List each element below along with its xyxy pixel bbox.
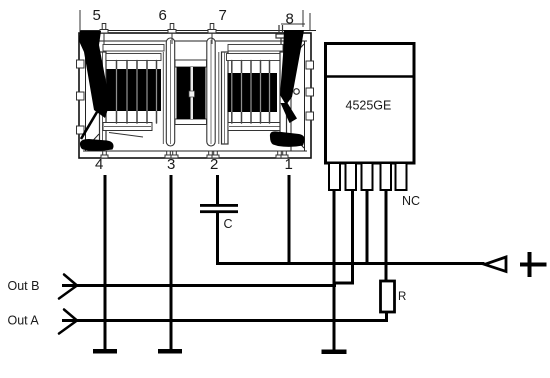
marker annotation left thin line — [81, 112, 97, 139]
wire: motor pin 1 down to H1 — [288, 175, 291, 264]
svg-text:R: R — [398, 291, 406, 303]
coil winding C (black) — [228, 73, 278, 112]
bobbin C left flange — [222, 52, 229, 144]
svg-text:Out B: Out B — [8, 279, 40, 293]
bobbin C bottom bars — [228, 123, 282, 131]
wire: IC pin 3 down to H1 — [366, 190, 369, 264]
bobbin C right flange — [280, 52, 287, 144]
ground symbol 2 — [158, 349, 182, 354]
wire: Out A horizontal — [62, 319, 388, 322]
bobbin C top bars — [227, 45, 284, 61]
IC pin 4 — [381, 163, 392, 190]
bobbin A bottom bars — [103, 123, 152, 138]
wire: IC pin 2 down to Out B jog — [351, 190, 354, 285]
marker annotation right bottom blob — [270, 131, 305, 147]
svg-text:4: 4 — [95, 156, 103, 173]
supply plus sign — [520, 252, 547, 277]
bobbin A top bars — [103, 45, 164, 61]
winding A wire loops — [117, 61, 157, 124]
bobbin A left flange — [100, 52, 107, 144]
IC pin 5 NC — [396, 163, 407, 190]
pin 2 terminals — [207, 151, 219, 158]
pin 4 terminal — [101, 151, 108, 158]
frame tabs right — [306, 61, 314, 120]
marker annotation left stroke — [79, 31, 110, 118]
svg-text:2: 2 — [210, 156, 218, 173]
svg-text:Out A: Out A — [8, 314, 40, 328]
bobbin C outer gap line — [218, 52, 220, 144]
Out A arrow — [59, 310, 77, 334]
wire: IC pin 1 down to ground — [333, 190, 336, 350]
wire: Out B horizontal — [62, 284, 336, 287]
resistor R body — [381, 281, 395, 312]
wire: node H1 horizontal to supply — [216, 262, 485, 265]
svg-text:5: 5 — [93, 7, 101, 24]
bobbin A outer gap line — [162, 52, 164, 144]
screw hole — [294, 89, 300, 95]
svg-text:3: 3 — [167, 156, 175, 173]
marker annotation left bottom blob — [80, 139, 114, 151]
pin 1 terminals — [276, 151, 288, 158]
center capsule flange left — [166, 38, 174, 146]
Out B arrow — [59, 275, 77, 299]
svg-text:4525GE: 4525GE — [346, 99, 392, 113]
marker annotation right stroke — [280, 30, 304, 105]
coil winding A (black) — [107, 69, 162, 111]
pin 6 terminal — [168, 24, 176, 45]
IC pin 1 — [329, 163, 340, 190]
ground symbol 3 — [322, 350, 347, 355]
wire: motor pin 3 down to ground — [170, 175, 173, 350]
frame tabs left — [77, 60, 85, 134]
pin 5 terminal — [100, 24, 108, 45]
wire: motor pin 2 down to capacitor — [216, 175, 219, 205]
wire: Out B jog segment — [333, 282, 354, 285]
IC pin 3 — [362, 163, 373, 190]
ground symbol 1 — [93, 349, 117, 354]
wire: capacitor to node H1 — [216, 213, 219, 265]
capacitor C plates — [200, 204, 238, 207]
IC U1 4525GE body — [326, 44, 415, 164]
center capsule flange right — [207, 38, 215, 146]
pin 3 terminals — [165, 151, 178, 158]
wire: resistor R bottom to Out A — [385, 312, 388, 322]
transformer/motor T1 frame — [79, 31, 316, 159]
svg-text:1: 1 — [285, 156, 293, 173]
dimension ticks — [80, 10, 310, 33]
wire: motor pin 4 down to ground — [104, 175, 107, 350]
svg-text:6: 6 — [159, 7, 167, 24]
svg-text:8: 8 — [286, 11, 294, 28]
pin 8 terminal — [276, 25, 285, 44]
coil winding B (black, center) — [177, 67, 206, 119]
svg-text:NC: NC — [402, 194, 420, 208]
pin 7 terminal — [208, 24, 216, 45]
winding C wire loops — [232, 61, 270, 124]
IC U1 divider line — [327, 75, 413, 78]
marker annotation right second stroke — [281, 103, 298, 123]
svg-text:C: C — [224, 217, 233, 231]
wire: IC pin 4 down to resistor R — [385, 190, 388, 282]
supply terminal triangle — [485, 257, 507, 272]
svg-text:7: 7 — [219, 7, 227, 24]
bobbin B top/bottom bars — [175, 60, 207, 125]
IC pin 2 — [346, 163, 357, 190]
